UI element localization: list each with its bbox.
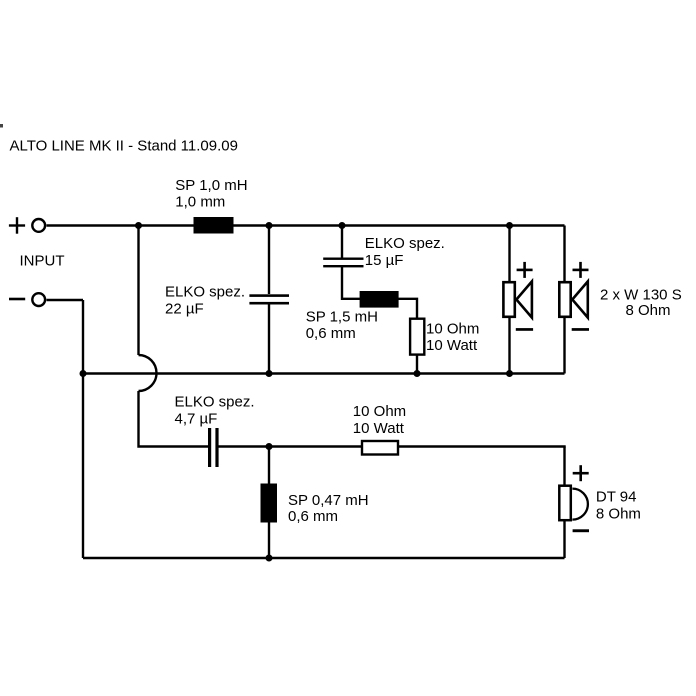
svg-text:1,0 mm: 1,0 mm <box>175 194 225 211</box>
svg-text:INPUT: INPUT <box>20 252 65 269</box>
svg-text:ELKO spez.: ELKO spez. <box>365 235 445 252</box>
svg-text:10 Ohm: 10 Ohm <box>426 320 479 337</box>
svg-text:SP 1,5 mH: SP 1,5 mH <box>306 308 378 325</box>
svg-text:ELKO spez.: ELKO spez. <box>165 284 245 301</box>
svg-text:ELKO spez.: ELKO spez. <box>175 394 255 411</box>
svg-text:SP 1,0 mH: SP 1,0 mH <box>175 177 247 194</box>
svg-text:10 Watt: 10 Watt <box>426 337 478 354</box>
svg-text:0,6 mm: 0,6 mm <box>288 508 338 525</box>
svg-text:8 Ohm: 8 Ohm <box>626 302 671 319</box>
svg-text:10 Watt: 10 Watt <box>353 420 405 437</box>
svg-text:DT 94: DT 94 <box>596 488 637 505</box>
svg-text:2 x W 130 S: 2 x W 130 S <box>600 286 682 303</box>
svg-text:ALTO LINE MK II - Stand 11.09.: ALTO LINE MK II - Stand 11.09.09 <box>10 138 238 155</box>
svg-text:15 µF: 15 µF <box>365 252 404 269</box>
svg-text:22 µF: 22 µF <box>165 301 204 318</box>
svg-text:10 Ohm: 10 Ohm <box>353 403 406 420</box>
svg-text:SP 0,47 mH: SP 0,47 mH <box>288 492 369 509</box>
svg-text:0,6 mm: 0,6 mm <box>306 325 356 342</box>
svg-text:4,7 µF: 4,7 µF <box>175 411 218 428</box>
svg-text:8 Ohm: 8 Ohm <box>596 505 641 522</box>
